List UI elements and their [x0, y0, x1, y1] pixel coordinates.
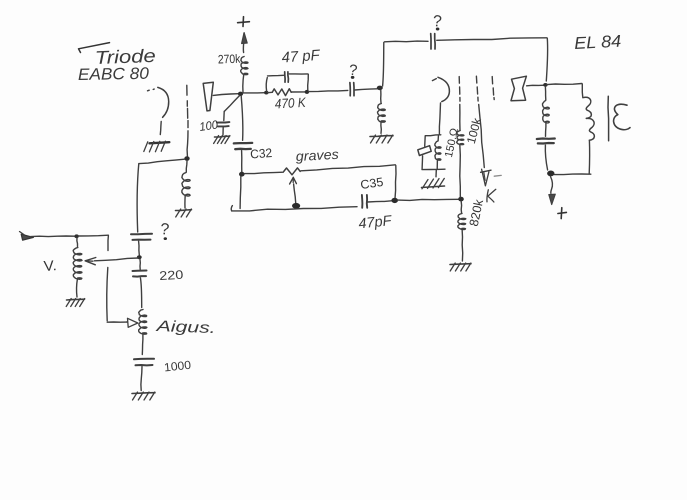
label ? (feedback cap)	[432, 13, 442, 31]
wire right corner down (lower)	[107, 268, 108, 321]
node I (wiper to bottom rail)	[292, 203, 300, 209]
svg-text:1000: 1000	[163, 358, 192, 375]
wire cap to node B	[138, 241, 141, 255]
wire coil to bottom	[588, 140, 590, 174]
wire C35 to node J	[368, 201, 393, 202]
speaker epsilon	[614, 104, 630, 129]
resistor 270k	[241, 57, 248, 75]
wire node J to node K	[398, 199, 460, 200]
svg-text:EABC 80: EABC 80	[78, 65, 150, 84]
svg-text:220: 220	[159, 268, 184, 283]
volume wiper arrow	[85, 258, 138, 265]
resistor Aigus (treble pot)	[139, 310, 147, 335]
label Aigus.	[155, 318, 216, 337]
resistor (node L down)	[543, 87, 550, 136]
capacitor (cathode bypass, drawn as cylinder)	[418, 136, 431, 169]
label Triode (title with overline stroke)	[79, 43, 157, 68]
capacitor 220	[133, 271, 147, 277]
label 470k	[274, 95, 307, 112]
wire C1000 to ground	[141, 367, 142, 391]
EL84 grid 1 (dashed)	[458, 77, 461, 102]
label + (bottom supply)	[558, 208, 567, 219]
capacitor 47pF loop	[266, 72, 308, 91]
node C (input junction)	[74, 234, 78, 238]
label C35	[359, 175, 384, 192]
resistor (triode cathode)	[182, 173, 190, 197]
label 150 ohm (rotated)	[443, 127, 461, 158]
capacitor C32	[234, 143, 252, 149]
wire corner to Aigus arrow	[107, 321, 126, 323]
wire transformer top down	[581, 84, 583, 97]
wire Aigus to C1000	[141, 335, 144, 355]
label 270k	[218, 52, 242, 67]
wire anode to node L	[527, 84, 545, 87]
svg-text:820k: 820k	[467, 197, 486, 227]
label 100	[198, 117, 219, 133]
node M	[547, 171, 554, 177]
wire node K up / resistor 100k	[457, 105, 464, 198]
EL84 grid 3 (dashed)	[492, 77, 494, 100]
svg-text:47 pF: 47 pF	[281, 47, 321, 67]
label 47pF (top)	[281, 47, 321, 67]
label 820k (rotated)	[467, 197, 486, 227]
graves wiper arrow	[290, 177, 297, 203]
svg-text:EL 84: EL 84	[574, 32, 622, 53]
svg-text:C35: C35	[359, 175, 384, 192]
node H	[239, 172, 245, 177]
transformer core bar	[607, 96, 610, 141]
label 100k (rotated)	[464, 116, 485, 146]
triode V1 anode plate	[203, 82, 213, 111]
input arrow	[20, 232, 34, 241]
wire coupling cap to node G	[355, 89, 378, 90]
supply arrow (to +)	[242, 33, 248, 53]
supply arrow down (node M)	[549, 177, 556, 205]
node L (EL84 plate node)	[543, 83, 547, 87]
ground (100 cap)	[214, 136, 230, 144]
wire input to node C	[31, 235, 76, 238]
transformer primary coil	[583, 97, 595, 140]
node B (wiper junction)	[137, 255, 142, 259]
svg-text:?: ?	[160, 221, 170, 239]
wire left rail down	[137, 164, 139, 232]
svg-text:Aigus.: Aigus.	[155, 318, 216, 337]
EL84 grid 2 (dashed) with heater arrow	[476, 76, 491, 186]
wire graves right down	[395, 166, 396, 199]
resistor 150 ohm	[435, 136, 441, 169]
capacitor (input, unlabeled)	[131, 234, 152, 240]
wire transformer bottom	[555, 173, 591, 176]
wire node A to left rail	[139, 159, 184, 163]
node G (grid-leak node)	[377, 86, 383, 91]
label EL 84	[574, 32, 622, 53]
svg-text:graves: graves	[295, 147, 339, 164]
svg-text:150.Ω: 150.Ω	[443, 127, 461, 158]
label 220	[159, 268, 184, 283]
wire node D diagonal (cathode tap)	[224, 96, 240, 121]
resistor 820k	[458, 202, 466, 262]
label ? (input cap)	[160, 221, 170, 240]
wire C32 to node H	[241, 151, 243, 173]
ground (bottom of 1000)	[132, 392, 155, 400]
node K (EL84 grid node)	[458, 197, 464, 202]
label k mark	[487, 189, 496, 202]
wire node C to volume pot	[76, 238, 79, 247]
capacitor 100	[217, 122, 230, 126]
wire node G up (feedback left)	[383, 42, 384, 86]
label 1000	[163, 358, 192, 375]
wire node C to right corner	[79, 234, 109, 237]
wire right corner down (upper)	[107, 236, 109, 251]
wire node F to coupling cap	[309, 90, 348, 91]
label ? (coupling cap)	[348, 62, 358, 80]
wire node D to C32	[241, 96, 243, 140]
svg-text:V.: V.	[43, 258, 57, 275]
node D (anode node)	[238, 92, 243, 96]
label + (supply top)	[238, 17, 250, 27]
capacitor ? (feedback)	[431, 34, 435, 49]
triode V1 grid arc	[148, 87, 169, 117]
resistor V (volume pot)	[73, 248, 82, 280]
label minus mark	[494, 174, 501, 177]
svg-text:270k: 270k	[218, 52, 242, 67]
wire node D to node E	[243, 92, 265, 94]
wire graves pot right	[301, 165, 395, 171]
ground (820k)	[450, 263, 471, 271]
wire node L to transformer	[547, 84, 582, 85]
ground (cathode R)	[176, 209, 192, 217]
wire bottom rail	[231, 206, 357, 211]
node J	[391, 198, 398, 203]
wire node B to C 220	[139, 260, 141, 270]
node A (cathode junction)	[184, 156, 189, 161]
ground (triode grid)	[144, 141, 170, 152]
ground (volume pot)	[66, 299, 85, 307]
wire cathode R to ground	[184, 195, 186, 208]
capacitor (below resistor)	[537, 139, 555, 144]
node F	[305, 90, 310, 94]
wire C220 down	[140, 278, 141, 308]
svg-text:C32: C32	[250, 146, 273, 162]
ground (EL84 cathode)	[422, 178, 445, 188]
svg-text:100: 100	[198, 117, 219, 133]
wire node A down	[185, 161, 188, 172]
cathode RC loop top	[425, 134, 440, 137]
svg-text:47pF: 47pF	[358, 213, 394, 232]
wire node H down	[239, 177, 242, 209]
triode V1 cathode (dash-dot line)	[187, 85, 188, 156]
svg-text:470 K: 470 K	[274, 95, 307, 112]
cathode RC loop bottom	[422, 169, 445, 177]
wire feedback top-left	[385, 40, 429, 43]
wire C100 to ground	[222, 127, 224, 135]
capacitor (coupling, ?)	[350, 83, 354, 96]
arrow into Aigus pot	[127, 318, 138, 327]
resistor (grid leak)	[378, 91, 386, 134]
label EABC 80	[78, 65, 150, 84]
capacitor C35	[362, 195, 367, 208]
wire feedback right down	[546, 38, 547, 81]
wire cap to node M	[545, 145, 547, 170]
EL84 anode plate	[511, 76, 526, 101]
capacitor 1000	[134, 359, 154, 366]
wire feedback top-right	[437, 38, 547, 41]
resistor 470k	[268, 89, 305, 96]
wire grid to ground	[159, 122, 162, 135]
label V.	[43, 258, 57, 275]
resistor graves (bass pot)	[284, 168, 300, 175]
node E	[264, 91, 268, 95]
label graves	[295, 147, 339, 164]
wire cathode down	[439, 103, 440, 134]
wire pot to ground	[76, 279, 79, 297]
ground (grid leak)	[370, 135, 393, 143]
wire anode to node D	[213, 94, 239, 96]
label 47pF (C35)	[358, 213, 394, 232]
wire node H to graves pot	[245, 172, 284, 173]
label C32	[250, 146, 273, 162]
wire node D up	[243, 74, 244, 93]
EL84 cathode arc	[432, 77, 449, 101]
